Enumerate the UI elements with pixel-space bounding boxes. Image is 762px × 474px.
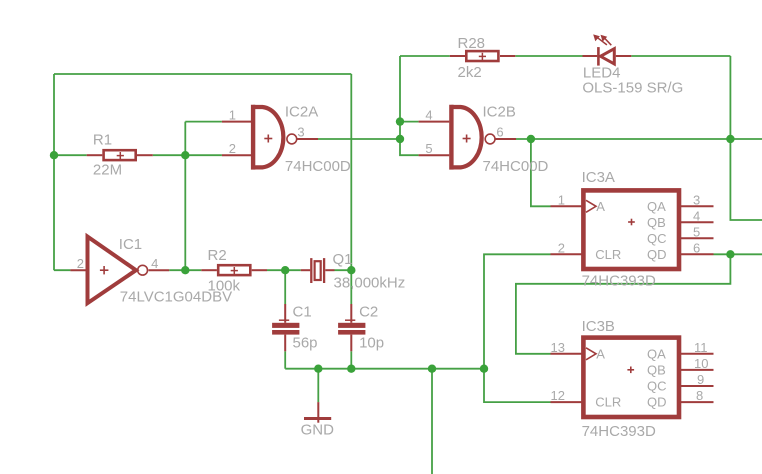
svg-text:74HC00D: 74HC00D [483,158,549,175]
junction: IC1 output branch [181,266,189,274]
junction: QD branch [726,250,734,258]
svg-text:12: 12 [551,388,565,403]
LED LED4 [583,34,632,65]
svg-text:74HC00D: 74HC00D [285,158,351,175]
junction: bottom bus down exit [428,365,436,373]
wire: oscillator box left edge [53,74,55,270]
svg-text:74HC393D: 74HC393D [582,272,656,289]
svg-text:6: 6 [693,240,700,255]
wire: C2 bottom branch [350,351,352,368]
wire: crystal to box right edge [335,269,352,271]
wire: up to IC3A CLR [484,254,551,368]
junction: bottom bus CLR branch [480,365,488,373]
svg-text:A: A [596,346,605,361]
op-amp: NAND gate IC2B [419,105,516,170]
svg-text:IC1: IC1 [119,236,142,253]
wire: C1 bottom branch [284,351,286,368]
svg-text:2: 2 [229,141,236,156]
wire: to IC2A pin 1 [185,121,222,123]
svg-text:IC2B: IC2B [483,103,516,120]
wire: vertical x=400 [400,56,419,155]
resistor R2 [201,265,267,275]
svg-text:10: 10 [694,356,708,371]
wire: left edge to IC1 input [54,269,70,271]
wire: R1 left [54,154,87,156]
svg-text:6: 6 [496,125,503,140]
junction: GND tap [314,365,322,373]
svg-text:11: 11 [694,340,708,355]
svg-text:5: 5 [693,224,700,239]
svg-text:2k2: 2k2 [458,64,482,81]
svg-text:100k: 100k [208,277,241,294]
svg-text:8: 8 [696,388,703,403]
svg-text:5: 5 [425,141,432,156]
wire: to R28 [400,55,450,57]
wire: R2 to crystal [267,269,301,271]
resistor R28 [450,51,516,61]
wire: R28 to LED [515,55,582,57]
IC IC3A 74HC393D counter [551,190,714,269]
svg-text:4: 4 [425,108,432,123]
svg-text:CLR: CLR [595,247,621,262]
svg-text:A: A [596,199,605,214]
svg-text:4: 4 [151,256,158,271]
svg-text:C2: C2 [359,304,378,321]
wire: vertical branch x=185 [184,122,186,271]
wire: LED to right corner [631,55,730,57]
wire: IC1 output to R2 [169,269,201,271]
svg-text:10p: 10p [359,335,384,352]
svg-text:QA: QA [647,199,666,214]
svg-text:QB: QB [647,215,666,230]
op-amp U? : NAND gate IC2A [222,105,318,170]
svg-text:1: 1 [558,192,565,207]
svg-text:3: 3 [693,192,700,207]
junction: IC3A clock branch [527,135,535,143]
svg-text:38,000kHz: 38,000kHz [334,275,406,292]
svg-text:QC: QC [647,231,667,246]
junction: C2 bottom [347,365,355,373]
svg-text:IC3A: IC3A [582,169,615,186]
svg-text:74HC393D: 74HC393D [582,423,656,440]
junction: IC2A out joins vertical [396,135,404,143]
svg-text:4: 4 [693,208,700,223]
svg-text:2: 2 [558,240,565,255]
svg-text:IC2A: IC2A [285,103,318,120]
svg-text:56p: 56p [293,335,318,352]
svg-text:9: 9 [697,372,704,387]
wire: right vertical exit [730,56,762,220]
wire: GND tap [317,369,319,402]
capacitor C1 [272,304,299,351]
svg-text:IC3B: IC3B [582,318,615,335]
svg-text:C1: C1 [293,304,312,321]
svg-text:QA: QA [647,346,666,361]
wire: down to IC3B CLR [484,369,551,402]
svg-text:22M: 22M [93,162,122,179]
wire: IC2B output bus [516,138,762,140]
svg-text:1: 1 [229,108,236,123]
inverter IC1 [70,237,169,304]
wire: down exit [431,369,433,474]
wire: bottom ground bus [285,368,484,370]
svg-text:13: 13 [551,340,565,355]
junction: pin4 branch [396,117,404,125]
wire: QD to IC3B clock [516,254,731,353]
junction: LED net joins output bus [726,135,734,143]
junction: C1 branch [281,266,289,274]
svg-text:QC: QC [647,378,667,393]
wire: C1 top branch [284,270,286,304]
svg-text:OLS-159 SR/G: OLS-159 SR/G [582,79,683,96]
svg-text:Q1: Q1 [333,251,353,268]
svg-text:R2: R2 [208,247,227,264]
svg-text:R1: R1 [93,131,112,148]
wire: QD output right exit [714,253,762,255]
wire: R1 right to IC2A pin 2 [153,154,222,156]
crystal Q1 [301,258,335,283]
svg-text:3: 3 [297,125,304,140]
svg-text:R28: R28 [458,35,486,52]
junction: crystal right / C2 [347,266,355,274]
wire: oscillator box right edge [350,74,352,270]
IC IC3B 74HC393D counter [551,338,714,417]
wire: oscillator box top edge [54,73,351,75]
junction: R1 right branch [181,151,189,159]
svg-text:QB: QB [647,362,666,377]
wire: down to IC3A clock [531,139,551,206]
wire: to IC2B pin 4 [400,121,419,123]
svg-text:QD: QD [647,394,667,409]
svg-text:CLR: CLR [595,394,621,409]
wire: IC2A output [318,138,400,140]
capacitor C2 [338,304,365,351]
svg-text:GND: GND [301,421,335,438]
svg-text:QD: QD [647,247,667,262]
junction: R1 left [50,151,58,159]
svg-text:2: 2 [77,256,84,271]
wire: C2 top branch [350,270,352,304]
resistor R1 [87,150,153,160]
ground GND [304,402,331,423]
